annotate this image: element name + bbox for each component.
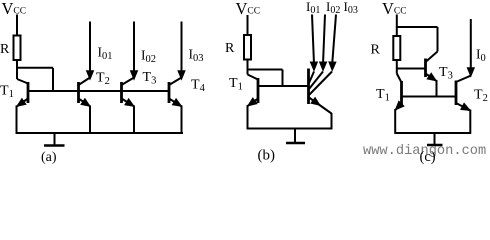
svg-text:R: R <box>0 42 10 57</box>
svg-text:R: R <box>371 43 381 58</box>
svg-text:R: R <box>225 41 235 56</box>
svg-text:(c): (c) <box>420 149 436 164</box>
svg-text:(b): (b) <box>258 148 276 164</box>
svg-text:(a): (a) <box>41 150 57 164</box>
